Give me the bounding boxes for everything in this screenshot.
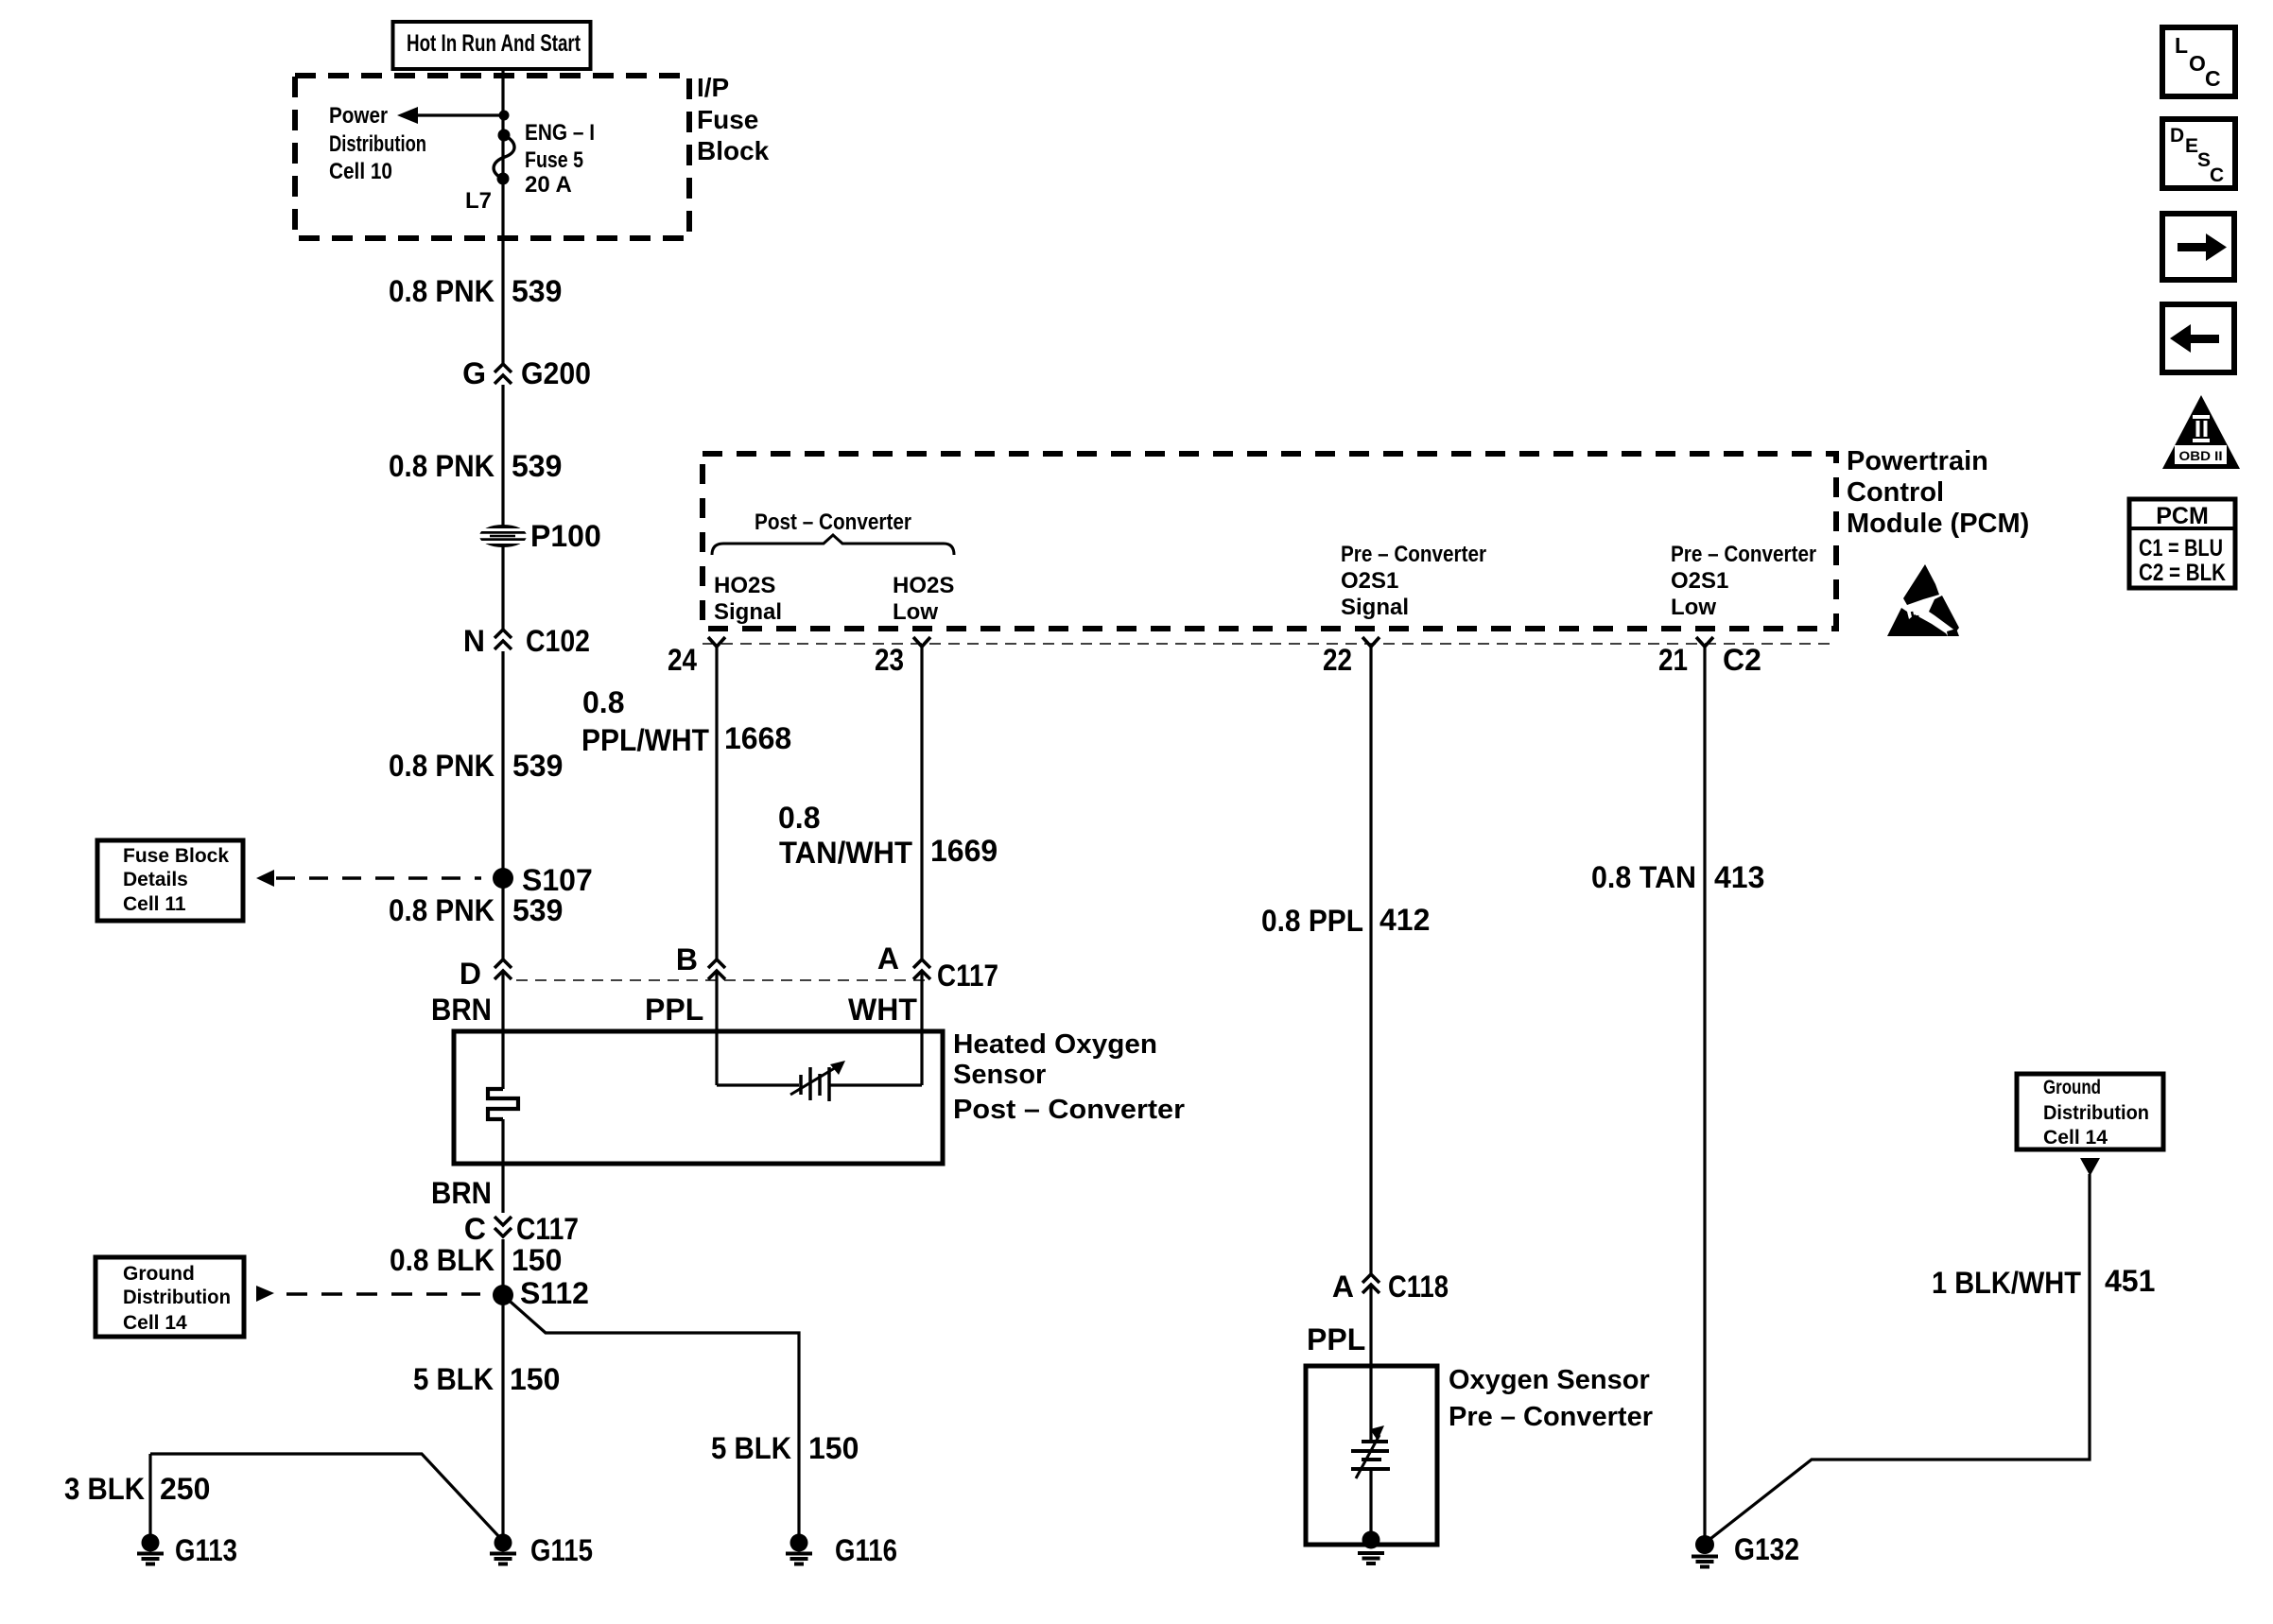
svg-text:BRN: BRN: [431, 1176, 492, 1210]
svg-text:Ground: Ground: [2043, 1077, 2101, 1098]
svg-text:I/P: I/P: [697, 73, 729, 102]
svg-text:TAN/WHT: TAN/WHT: [779, 836, 912, 870]
svg-text:23: 23: [875, 643, 904, 677]
svg-text:Distribution: Distribution: [123, 1287, 231, 1308]
svg-text:21: 21: [1658, 643, 1688, 677]
svg-text:0.8 PNK: 0.8 PNK: [389, 893, 495, 927]
svg-text:150: 150: [808, 1431, 859, 1465]
svg-text:OBD II: OBD II: [2179, 448, 2223, 463]
svg-text:Control: Control: [1847, 477, 1944, 508]
svg-text:C102: C102: [526, 624, 590, 658]
svg-text:Pre – Converter: Pre – Converter: [1341, 542, 1486, 567]
svg-text:Fuse Block: Fuse Block: [123, 845, 229, 867]
svg-text:22: 22: [1323, 643, 1352, 677]
svg-text:L7: L7: [465, 188, 492, 214]
svg-text:Signal: Signal: [1341, 595, 1409, 620]
svg-text:A: A: [877, 942, 899, 976]
svg-text:Post – Converter: Post – Converter: [953, 1095, 1185, 1125]
svg-text:Signal: Signal: [714, 599, 782, 625]
svg-text:G200: G200: [521, 356, 591, 390]
svg-text:539: 539: [512, 449, 562, 483]
svg-text:Cell 10: Cell 10: [329, 159, 392, 184]
svg-text:A: A: [1332, 1270, 1354, 1304]
svg-text:Pre – Converter: Pre – Converter: [1671, 542, 1816, 567]
svg-text:G116: G116: [835, 1533, 897, 1567]
svg-text:Cell 14: Cell 14: [123, 1312, 187, 1334]
svg-text:539: 539: [512, 274, 562, 308]
svg-text:O2S1: O2S1: [1341, 568, 1398, 594]
svg-text:N: N: [463, 624, 485, 658]
svg-text:0.8: 0.8: [778, 801, 820, 835]
svg-text:C117: C117: [937, 959, 998, 993]
svg-text:Cell 11: Cell 11: [123, 893, 186, 915]
svg-text:539: 539: [512, 893, 563, 927]
svg-text:G115: G115: [530, 1533, 593, 1567]
svg-text:P100: P100: [530, 519, 601, 553]
svg-text:250: 250: [160, 1472, 210, 1506]
svg-text:G: G: [462, 356, 486, 390]
svg-text:150: 150: [512, 1243, 562, 1277]
svg-text:HO2S: HO2S: [714, 573, 775, 598]
svg-text:S: S: [2197, 149, 2211, 171]
svg-text:0.8 PNK: 0.8 PNK: [389, 449, 495, 483]
svg-text:C117: C117: [516, 1212, 579, 1246]
svg-text:L: L: [2175, 33, 2188, 58]
svg-text:Distribution: Distribution: [329, 131, 426, 157]
svg-text:0.8 TAN: 0.8 TAN: [1591, 860, 1696, 894]
svg-text:3 BLK: 3 BLK: [64, 1472, 145, 1506]
svg-text:451: 451: [2105, 1264, 2155, 1298]
svg-text:Fuse: Fuse: [697, 105, 758, 134]
svg-text:PCM: PCM: [2156, 503, 2209, 529]
svg-text:C1 = BLU: C1 = BLU: [2139, 535, 2223, 561]
svg-text:0.8 PNK: 0.8 PNK: [389, 274, 495, 308]
svg-text:Sensor: Sensor: [953, 1060, 1046, 1090]
svg-text:G132: G132: [1734, 1532, 1799, 1566]
svg-text:5 BLK: 5 BLK: [413, 1362, 494, 1396]
svg-text:Ground: Ground: [123, 1263, 195, 1285]
svg-text:0.8 PPL: 0.8 PPL: [1261, 904, 1363, 938]
svg-text:5 BLK: 5 BLK: [711, 1431, 791, 1465]
svg-text:Power: Power: [329, 103, 388, 129]
svg-text:Fuse 5: Fuse 5: [525, 147, 583, 173]
svg-text:ENG – I: ENG – I: [525, 120, 595, 146]
svg-text:1 BLK/WHT: 1 BLK/WHT: [1932, 1266, 2081, 1300]
svg-text:1668: 1668: [724, 721, 791, 755]
svg-text:Hot In Run And Start: Hot In Run And Start: [407, 30, 581, 57]
svg-text:1669: 1669: [930, 834, 998, 868]
svg-text:412: 412: [1379, 903, 1430, 937]
svg-text:S112: S112: [520, 1276, 589, 1310]
svg-text:20 A: 20 A: [525, 172, 572, 198]
svg-text:PPL/WHT: PPL/WHT: [581, 723, 709, 757]
svg-text:O2S1: O2S1: [1671, 568, 1728, 594]
svg-text:C: C: [464, 1212, 486, 1246]
svg-text:Details: Details: [123, 869, 188, 890]
svg-text:C2: C2: [1723, 643, 1761, 677]
svg-text:Pre – Converter: Pre – Converter: [1449, 1402, 1653, 1432]
svg-text:Module (PCM): Module (PCM): [1847, 509, 2029, 539]
svg-text:0.8 PNK: 0.8 PNK: [389, 749, 495, 783]
svg-text:Cell 14: Cell 14: [2043, 1127, 2108, 1149]
svg-text:Oxygen Sensor: Oxygen Sensor: [1449, 1365, 1650, 1395]
svg-text:C: C: [2205, 66, 2221, 91]
svg-text:S107: S107: [522, 863, 593, 897]
svg-text:D: D: [460, 957, 481, 991]
svg-text:PPL: PPL: [1307, 1322, 1365, 1356]
svg-text:Powertrain: Powertrain: [1847, 446, 1988, 476]
svg-text:G113: G113: [175, 1533, 237, 1567]
svg-text:Post – Converter: Post – Converter: [755, 510, 911, 535]
svg-text:C2 = BLK: C2 = BLK: [2139, 560, 2226, 586]
svg-text:B: B: [676, 942, 698, 976]
svg-text:0.8 BLK: 0.8 BLK: [390, 1243, 495, 1277]
svg-text:150: 150: [510, 1362, 560, 1396]
svg-text:539: 539: [512, 749, 563, 783]
svg-text:HO2S: HO2S: [893, 573, 954, 598]
svg-text:Heated Oxygen: Heated Oxygen: [953, 1029, 1157, 1060]
svg-text:BRN: BRN: [431, 993, 492, 1027]
svg-text:Low: Low: [1671, 595, 1716, 620]
svg-text:D: D: [2170, 125, 2184, 147]
svg-text:0.8: 0.8: [582, 685, 624, 719]
svg-text:E: E: [2185, 135, 2198, 157]
svg-text:Low: Low: [893, 599, 938, 625]
svg-text:Distribution: Distribution: [2043, 1102, 2149, 1124]
svg-text:O: O: [2189, 51, 2206, 76]
svg-text:C: C: [2210, 164, 2224, 186]
svg-text:WHT: WHT: [848, 993, 917, 1027]
svg-text:PPL: PPL: [645, 993, 703, 1027]
svg-text:413: 413: [1714, 860, 1764, 894]
svg-text:C118: C118: [1388, 1270, 1449, 1304]
svg-text:Block: Block: [697, 136, 770, 165]
svg-text:24: 24: [668, 643, 697, 677]
